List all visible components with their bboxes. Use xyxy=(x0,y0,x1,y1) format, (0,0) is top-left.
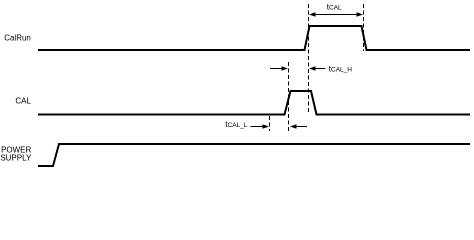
svg-text:CalRun: CalRun xyxy=(4,34,31,43)
node dashed line at CAL rise (x=288.5) xyxy=(288,62,290,131)
wire tCAL_L left arrow xyxy=(251,124,270,129)
wire tCAL_L right arrow xyxy=(290,124,307,129)
wire tCAL_H left arrow xyxy=(270,66,288,71)
wire tCAL dimension arrow xyxy=(309,12,363,17)
wire tCAL_H right arrow xyxy=(309,66,325,71)
wire CalRun waveform xyxy=(38,26,470,50)
wire CAL waveform xyxy=(38,91,470,115)
node dashed line tCAL_L start (x=269.5) xyxy=(269,116,271,131)
node dashed line at CalRun fall (x=363.5) xyxy=(363,4,365,51)
svg-text:tCAL_L: tCAL_L xyxy=(225,120,247,129)
svg-text:SUPPLY: SUPPLY xyxy=(0,154,32,163)
svg-text:tCAL: tCAL xyxy=(327,3,342,12)
svg-text:CAL: CAL xyxy=(15,97,31,106)
wire POWER SUPPLY waveform xyxy=(38,144,470,166)
node dashed line at CalRun rise (x=308.5) xyxy=(308,4,310,114)
svg-text:tCAL_H: tCAL_H xyxy=(329,64,352,73)
